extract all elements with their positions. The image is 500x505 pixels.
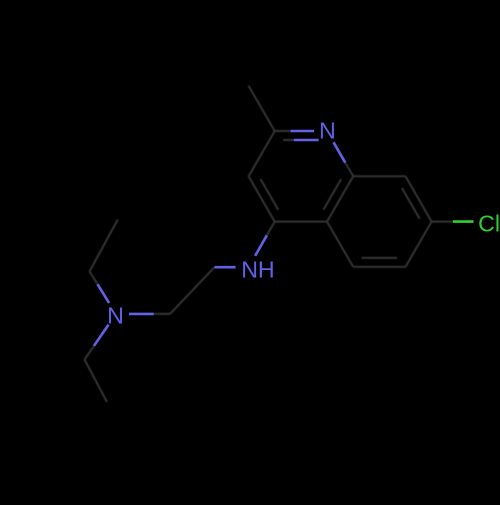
svg-text:N: N	[107, 303, 124, 329]
svg-text:NH: NH	[241, 256, 275, 282]
svg-text:Cl: Cl	[478, 211, 500, 237]
svg-text:N: N	[319, 118, 336, 144]
